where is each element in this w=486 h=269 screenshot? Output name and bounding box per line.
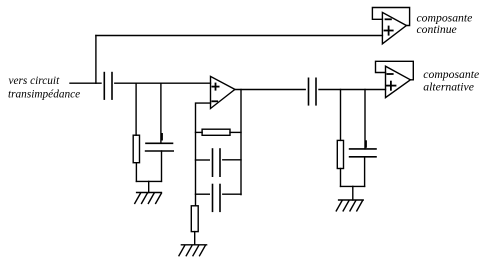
svg-text:vers circuit: vers circuit <box>9 75 61 87</box>
svg-text:continue: continue <box>417 23 457 36</box>
svg-text:composante: composante <box>423 68 479 81</box>
svg-text:transimpédance: transimpédance <box>8 89 80 101</box>
svg-text:alternative: alternative <box>423 80 474 93</box>
